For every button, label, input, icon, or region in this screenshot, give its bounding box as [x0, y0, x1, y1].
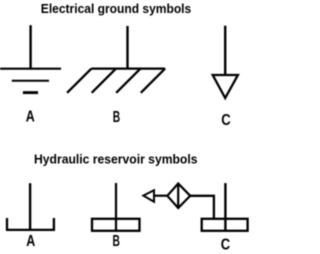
svg-text:B: B — [113, 233, 120, 250]
ground symbol A (earth ground) — [0, 25, 61, 92]
tank C closed rectangle — [202, 219, 248, 231]
wire: vertical lead of C — [224, 26, 226, 75]
svg-text:Electrical ground symbols: Electrical ground symbols — [41, 1, 191, 16]
reservoir C assembly (tank with filter and flow arrow) — [143, 183, 247, 231]
svg-text:C: C — [221, 236, 231, 253]
wire: vertical lead of B — [126, 26, 128, 69]
flow arrowhead — [143, 190, 154, 202]
wire: pipe into tank A — [29, 183, 31, 230]
svg-text:A: A — [26, 233, 35, 250]
ground B hatch 3 — [116, 69, 140, 93]
wire: pipe through tank C — [224, 183, 226, 231]
svg-text:A: A — [26, 109, 35, 126]
ground C triangle — [213, 75, 238, 98]
reservoir B (pressurized closed tank) — [92, 183, 140, 231]
ground A bar 3 (short) — [23, 91, 38, 94]
reservoir A (vented tank, pipe below fluid level) — [7, 183, 54, 230]
ground A bar 2 (middle) — [12, 80, 49, 82]
filter element vertical line — [177, 184, 179, 209]
svg-text:Hydraulic reservoir symbols: Hydraulic reservoir symbols — [34, 152, 198, 167]
ground A bar 1 (long) — [0, 68, 61, 70]
ground symbol B (chassis ground) — [67, 26, 165, 93]
ground B hatch 4 — [141, 69, 165, 93]
ground symbol C (signal ground, open triangle) — [213, 26, 238, 98]
wire: arrow to filter — [154, 195, 167, 197]
ground B hatch 2 — [92, 69, 116, 93]
tank B closed rectangle — [92, 219, 140, 231]
svg-text:B: B — [113, 109, 120, 126]
wire: filter to tank C elbow — [190, 196, 214, 219]
filter diamond — [167, 184, 190, 209]
wire: pipe into tank B — [115, 183, 117, 231]
wire: vertical lead of A — [29, 25, 31, 68]
tank A open container — [7, 218, 54, 230]
ground B hatch 1 — [67, 69, 91, 93]
ground B horizontal bar — [91, 67, 165, 69]
svg-text:C: C — [221, 112, 231, 129]
